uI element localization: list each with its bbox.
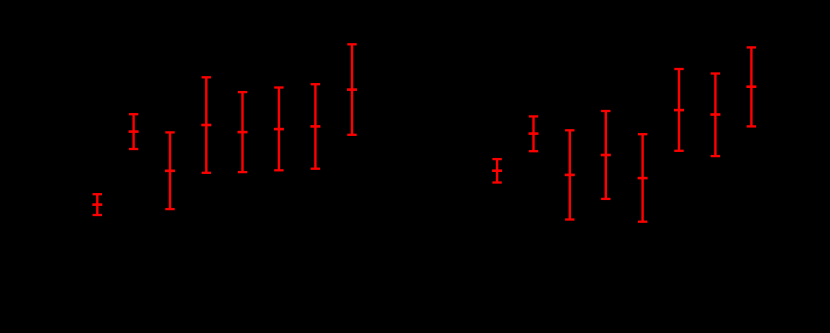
errorbar left panel point 2: x=133.6, hi=114.2, mean=131.6, lo=149.0	[129, 114, 139, 149]
errorbar right panel point 3: x=569.8, hi=130.3, mean=174.9, lo=219.5	[565, 130, 575, 219]
errorbar right panel point 1: x=497.1, hi=159.1, mean=170.7, lo=182.5	[492, 159, 502, 182]
errorbar right panel point 8: x=751.4, hi=47.4, mean=86.7, lo=126.4	[746, 47, 756, 126]
errorbar left panel point 7: x=315.4, hi=84.2, mean=126.4, lo=168.7	[310, 84, 320, 169]
errorbar right panel point 7: x=715.4, hi=73.5, mean=114.5, lo=156.1	[710, 74, 720, 157]
errorbar left panel point 8: x=352.0, hi=44.3, mean=89.6, lo=134.8	[347, 44, 357, 135]
errorbar left panel point 4: x=206.3, hi=77.3, mean=125.0, lo=172.8	[201, 77, 211, 173]
errorbar left panel point 6: x=278.9, hi=87.5, mean=129.1, lo=170.3	[274, 88, 284, 171]
errorbar left panel point 5: x=242.5, hi=92.1, mean=132.1, lo=172.1	[238, 92, 248, 172]
errorbar right panel point 4: x=605.8, hi=111.0, mean=155.0, lo=198.9	[601, 111, 611, 199]
errorbar right panel point 6: x=679.0, hi=69.0, mean=110.1, lo=150.8	[674, 69, 684, 151]
errorbar left panel point 3: x=170.0, hi=132.4, mean=170.8, lo=209.1	[165, 132, 175, 209]
errorbar left panel point 1: x=97.3, hi=194.2, mean=204.6, lo=215.0	[92, 194, 102, 215]
errorbar right panel point 5: x=642.6, hi=134.2, mean=178.1, lo=221.7	[638, 134, 648, 222]
errorbar right panel point 2: x=533.5, hi=116.4, mean=133.6, lo=151.2	[529, 116, 539, 151]
